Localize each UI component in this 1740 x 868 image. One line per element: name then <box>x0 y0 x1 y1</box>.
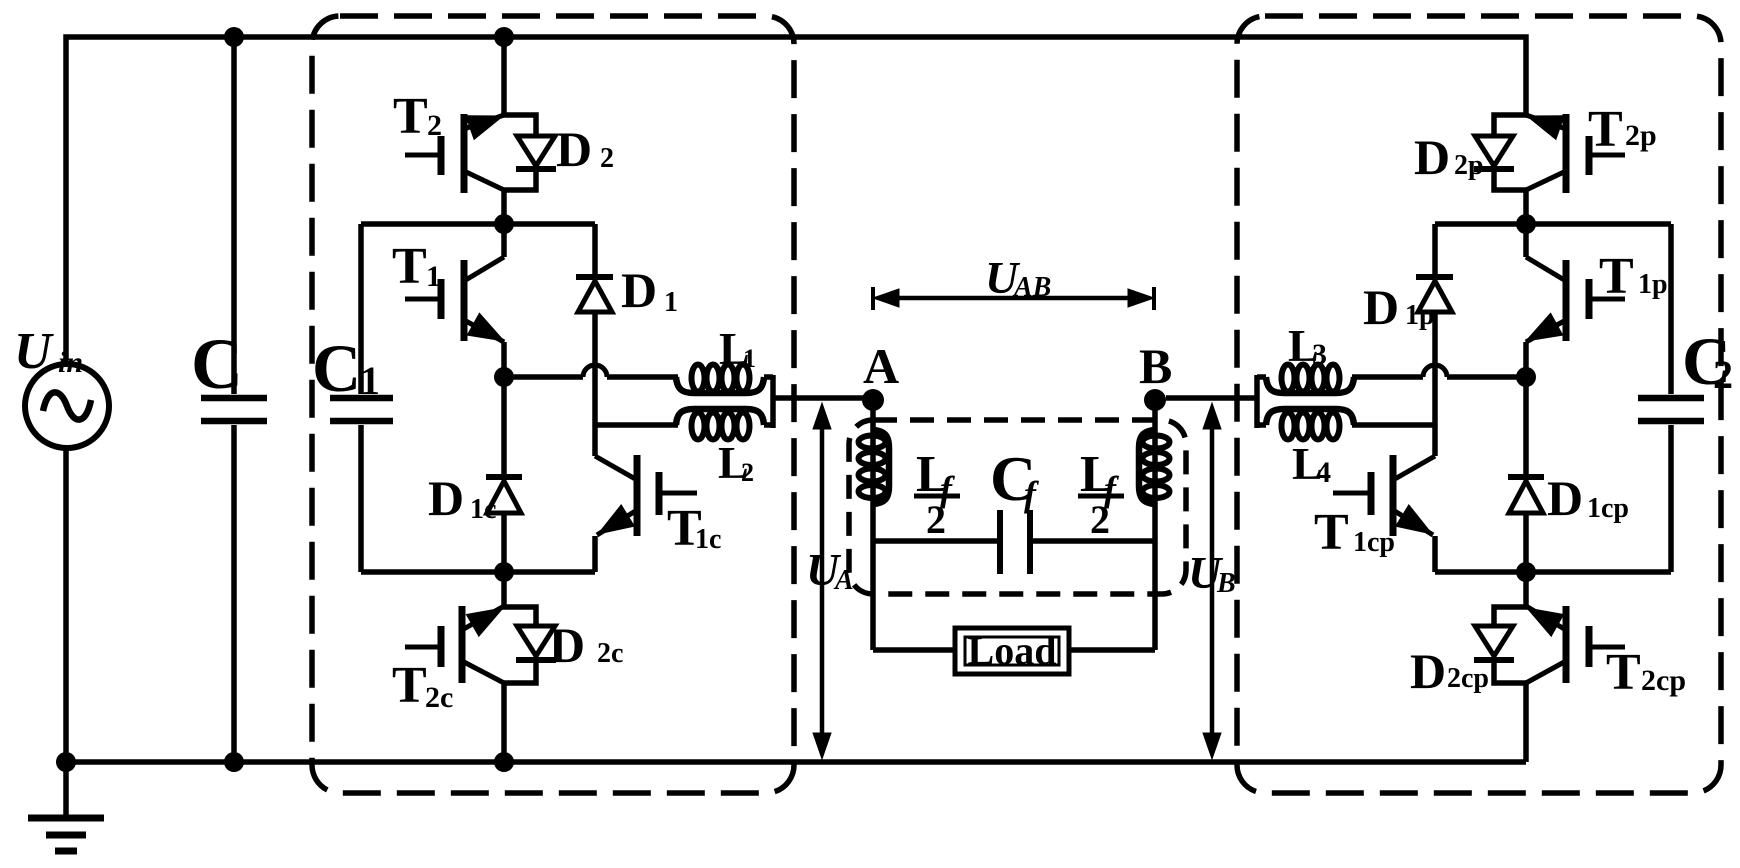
transistor T1p <box>1563 260 1570 341</box>
node left mid2 <box>494 367 514 387</box>
svg-text:1: 1 <box>664 287 678 318</box>
svg-text:1p: 1p <box>1638 269 1668 300</box>
svg-text:2: 2 <box>600 143 614 174</box>
wire right column low <box>1523 514 1529 606</box>
node left mid3 <box>494 562 514 582</box>
wire right column bottom <box>1523 683 1529 762</box>
svg-text:A: A <box>833 565 854 596</box>
transistor T2c <box>459 606 466 683</box>
svg-text:T: T <box>392 657 427 714</box>
wire bottom rail <box>66 445 1526 762</box>
inductor Lf/2 right <box>1152 405 1158 650</box>
svg-text:T: T <box>393 88 428 145</box>
transistor T1cp <box>1390 455 1397 536</box>
arrow UA <box>820 424 825 738</box>
diode D1p <box>1432 224 1438 277</box>
svg-text:4: 4 <box>1316 456 1331 489</box>
svg-text:D: D <box>1547 470 1583 526</box>
wire right column top <box>1523 190 1529 257</box>
left converter dashed box <box>312 16 794 793</box>
svg-text:C: C <box>191 324 243 404</box>
svg-text:2p: 2p <box>1625 119 1657 152</box>
wire L3L4 bracket <box>1254 375 1260 428</box>
transistor T2p <box>1563 114 1570 193</box>
wire left column low <box>501 514 507 606</box>
svg-text:B: B <box>1216 568 1236 599</box>
node B <box>1144 389 1166 411</box>
svg-text:1: 1 <box>743 344 756 373</box>
svg-text:D: D <box>549 617 585 673</box>
svg-text:2: 2 <box>1713 352 1733 397</box>
wire top rail <box>66 37 1526 363</box>
svg-text:A: A <box>863 338 899 394</box>
svg-text:2: 2 <box>926 497 946 542</box>
transistor T1c <box>634 455 641 536</box>
diode D2cp <box>1494 607 1528 627</box>
wire filter right tap <box>1030 538 1155 544</box>
right converter dashed box <box>1237 16 1721 793</box>
ground <box>63 762 69 818</box>
junction bottom rail / source <box>56 752 76 772</box>
diode D1cp <box>1508 474 1544 480</box>
svg-text:2: 2 <box>427 109 442 142</box>
inductor Lf/2 left <box>870 405 876 650</box>
svg-text:T: T <box>1599 248 1634 305</box>
junction bottom rail / left column <box>494 752 514 772</box>
svg-text:T: T <box>1314 504 1349 561</box>
svg-text:2p: 2p <box>1454 150 1484 181</box>
inductor L3 <box>1447 374 1526 380</box>
svg-text:Load: Load <box>968 628 1057 673</box>
wire node2 horizontal <box>361 569 595 575</box>
transistor T2cp <box>1563 606 1570 683</box>
capacitor C1 <box>358 224 364 394</box>
junction top rail / C <box>224 27 244 47</box>
svg-text:D: D <box>621 262 657 318</box>
inductor L1 <box>504 374 583 380</box>
svg-text:1p: 1p <box>1405 300 1435 331</box>
svg-text:1: 1 <box>360 358 380 403</box>
capacitor C <box>231 37 237 394</box>
node right mid1 <box>1516 214 1536 234</box>
svg-text:in: in <box>58 346 83 379</box>
svg-text:2c: 2c <box>597 638 623 669</box>
arrow UB <box>1210 424 1215 738</box>
AC source Uin <box>25 364 109 448</box>
node right mid3 <box>1516 562 1536 582</box>
svg-text:D: D <box>1410 643 1446 699</box>
node A <box>862 389 884 411</box>
wire L1L2 bracket <box>770 375 776 428</box>
transistor T2 <box>461 114 468 193</box>
wire right node1 horizontal <box>1435 221 1671 227</box>
junction top rail / left column <box>494 27 514 47</box>
svg-text:C: C <box>312 330 361 406</box>
filter dashed box <box>849 420 1186 594</box>
svg-text:2: 2 <box>741 458 754 487</box>
inductor L4 <box>1352 422 1435 428</box>
svg-text:3: 3 <box>1312 338 1327 371</box>
svg-text:2: 2 <box>1090 497 1110 542</box>
wire left column rail stub <box>501 37 507 115</box>
svg-text:AB: AB <box>1012 272 1051 303</box>
svg-text:T: T <box>1588 101 1623 158</box>
wire node1 horizontal <box>361 221 595 227</box>
inductor L2 <box>595 422 678 428</box>
arrow UAB <box>884 296 1143 301</box>
svg-text:2cp: 2cp <box>1641 664 1686 697</box>
wire filter left tap <box>873 538 1000 544</box>
capacitor C2 <box>1668 224 1674 394</box>
svg-text:D: D <box>1414 129 1450 185</box>
svg-text:D: D <box>556 121 592 177</box>
svg-text:1c: 1c <box>470 494 496 525</box>
junction bottom rail / C <box>224 752 244 772</box>
wire right node2 horizontal <box>1435 569 1671 575</box>
wire right column mid <box>1523 342 1529 477</box>
svg-text:T: T <box>392 238 427 295</box>
wire left column bottom <box>501 683 507 762</box>
svg-text:D: D <box>428 470 464 526</box>
svg-text:1cp: 1cp <box>1587 493 1629 524</box>
svg-text:T: T <box>1606 644 1641 701</box>
svg-text:2cp: 2cp <box>1447 663 1489 694</box>
diode D1c <box>486 474 522 480</box>
diode D1 <box>592 224 598 277</box>
diode D2 <box>502 115 536 137</box>
load resistor <box>873 647 955 653</box>
svg-text:D: D <box>1363 279 1399 335</box>
svg-text:B: B <box>1139 338 1172 394</box>
diode D2c <box>502 607 536 627</box>
svg-text:1: 1 <box>426 260 441 293</box>
node left mid1 <box>494 214 514 234</box>
capacitor Cf <box>997 510 1003 574</box>
svg-text:1c: 1c <box>695 524 721 555</box>
transistor T1 <box>461 260 468 341</box>
svg-text:2c: 2c <box>425 681 453 714</box>
wire left column mid <box>501 342 507 477</box>
svg-text:U: U <box>14 323 54 380</box>
node right mid2 <box>1516 367 1536 387</box>
diode D2p <box>1494 115 1528 137</box>
wire left column top <box>501 190 507 257</box>
svg-text:1cp: 1cp <box>1353 527 1395 558</box>
